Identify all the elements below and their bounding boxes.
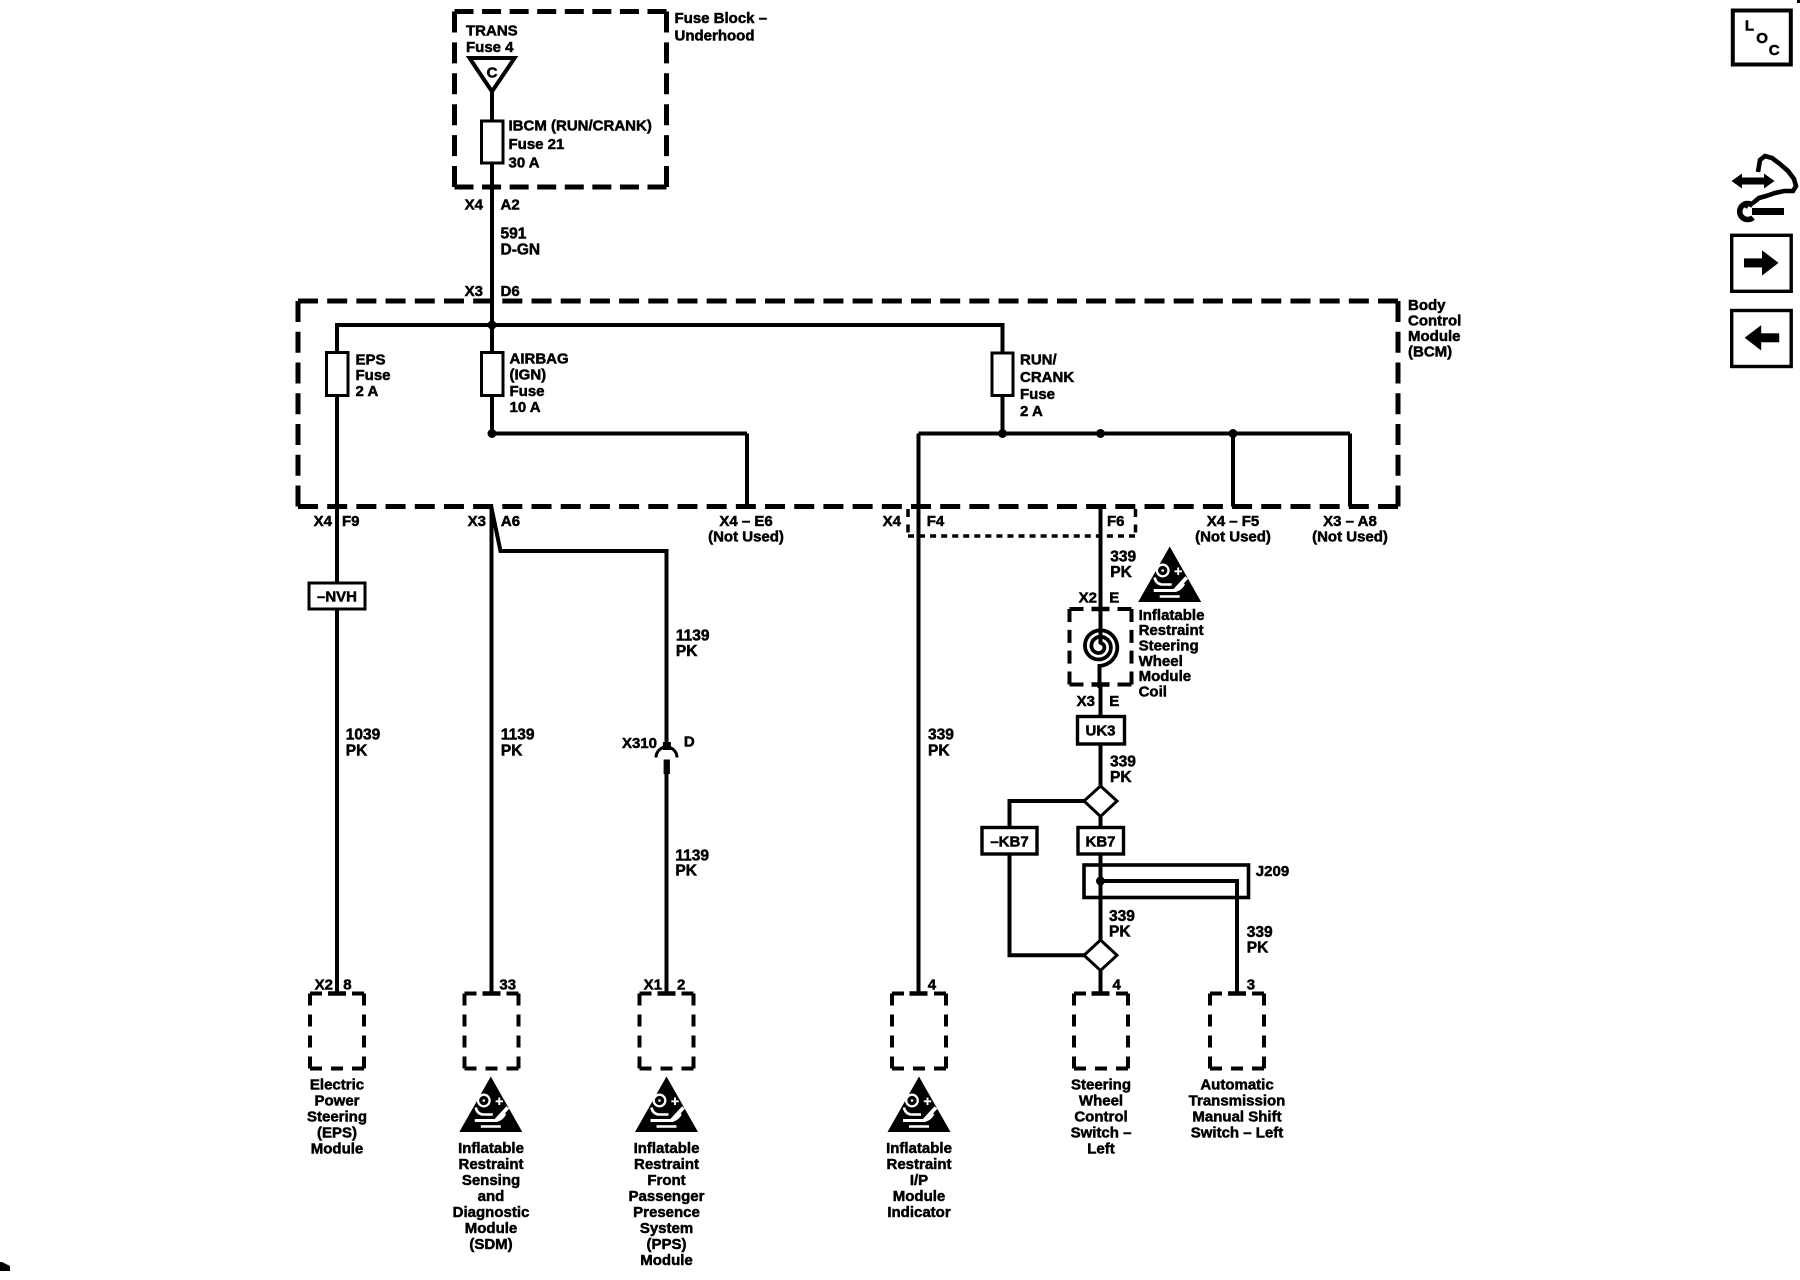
svg-text:Module: Module [1408, 328, 1461, 345]
wire: coil spiral exit [1098, 664, 1102, 688]
connector X4 dotted outline (pins F4, F6) [908, 509, 1136, 536]
svg-text:2: 2 [677, 977, 685, 994]
svg-text:and: and [478, 1188, 505, 1205]
connector C (TRANS Fuse 4 feed) [470, 58, 515, 92]
tick: wire entry at automatic transmission manual shift switch - left [1228, 991, 1246, 996]
airbag warning triangle (coil) [1138, 547, 1201, 603]
terminal dashed box: steering wheel control switch - left [1074, 994, 1128, 1069]
label: Body Control Module (BCM) [1408, 297, 1461, 361]
svg-text:X3: X3 [468, 513, 486, 530]
svg-text:Diagnostic: Diagnostic [453, 1204, 530, 1221]
page corner mark (bottom left) [0, 1262, 10, 1271]
svg-text:Passenger: Passenger [629, 1188, 705, 1205]
svg-text:Manual Shift: Manual Shift [1192, 1109, 1281, 1126]
svg-text:L: L [1745, 18, 1754, 35]
svg-text:PK: PK [501, 743, 523, 760]
tick: wire entry at electric power steering (EPS) module [328, 991, 346, 996]
splice pack J209 [1084, 865, 1249, 898]
svg-text:Switch –: Switch – [1071, 1125, 1132, 1142]
wire: lower bus to F4 [917, 434, 921, 507]
wire: F9 to EPS module (circuit 1039 PK) [335, 507, 339, 996]
svg-text:Control: Control [1074, 1109, 1127, 1126]
label: Fuse Block - Underhood [675, 10, 768, 44]
svg-text:Steering: Steering [1071, 1077, 1131, 1094]
tick: coil connector entry X2-E [1092, 607, 1110, 612]
svg-text:PK: PK [676, 643, 698, 660]
svg-text:PK: PK [346, 743, 368, 760]
svg-text:Fuse Block –: Fuse Block – [675, 10, 768, 27]
svg-text:Module: Module [311, 1141, 364, 1158]
option box UK3 [1078, 717, 1125, 745]
label: X4 - E6 (Not Used) [708, 513, 784, 546]
wire: RUN/CRANK fuse drop [1001, 325, 1005, 436]
svg-text:E: E [1109, 589, 1119, 606]
airbag warning triangle (I/P) [888, 1077, 951, 1133]
fuse IBCM (RUN/CRANK) Fuse 21 30A [482, 121, 504, 163]
option box KB7 [1078, 828, 1124, 855]
svg-text:D: D [684, 734, 695, 751]
svg-text:E: E [1109, 693, 1119, 710]
tick: wire entry at I/P module indicator [910, 991, 928, 996]
svg-text:Steering: Steering [307, 1109, 367, 1126]
svg-text:CRANK: CRANK [1020, 369, 1074, 386]
inline connector X310 pin D [622, 734, 695, 775]
svg-text:339: 339 [1110, 754, 1136, 771]
terminal dashed box: PPS module [640, 994, 694, 1069]
svg-text:(IGN): (IGN) [510, 367, 547, 384]
svg-text:Inflatable: Inflatable [634, 1140, 700, 1157]
svg-text:3: 3 [1247, 977, 1255, 994]
wire: KB7 through J209 to lower diamond [1099, 854, 1103, 940]
svg-text:(SDM): (SDM) [469, 1236, 512, 1253]
svg-text:Underhood: Underhood [675, 27, 755, 44]
wire: coil to UK3 [1099, 685, 1103, 718]
junction node: AIRBAG branch to X4-E6 [488, 429, 497, 438]
svg-text:Inflatable: Inflatable [886, 1140, 952, 1157]
wire: BCM top bus [335, 323, 1005, 327]
airbag warning triangle (SDM) [459, 1077, 522, 1133]
fuse AIRBAG (IGN) Fuse 10A [482, 353, 504, 396]
option box -KB7 [982, 828, 1037, 855]
wire label 339 PK (F4) [928, 727, 954, 760]
svg-text:F9: F9 [342, 513, 360, 530]
svg-text:1039: 1039 [346, 727, 381, 744]
svg-text:X2: X2 [1079, 589, 1097, 606]
svg-text:A6: A6 [501, 513, 520, 530]
label: Inflatable Restraint Steering Wheel Module Coil [1139, 607, 1205, 701]
wire: J209 to automatic transmission switch (339 PK) [1101, 881, 1238, 995]
wire: lower diamond to steering wheel control switch [1099, 971, 1103, 996]
navigation icon: next page (right arrow) [1732, 235, 1792, 291]
LOC reference box icon [1733, 11, 1791, 65]
svg-text:1139: 1139 [501, 727, 535, 744]
label: EPS Fuse 2 A [356, 351, 391, 400]
svg-text:KB7: KB7 [1085, 833, 1115, 850]
fuse block - underhood dashed box [455, 12, 667, 188]
svg-text:591: 591 [501, 225, 527, 242]
svg-text:Inflatable: Inflatable [458, 1140, 524, 1157]
svg-text:X4 – E6: X4 – E6 [719, 513, 772, 530]
svg-text:8: 8 [343, 977, 351, 994]
svg-text:Power: Power [314, 1093, 359, 1110]
navigation icon: previous page (left arrow) [1732, 311, 1792, 367]
svg-text:Restraint: Restraint [634, 1156, 699, 1173]
wire: F4 to I/P module indicator (circuit 339 PK) [917, 507, 921, 996]
svg-text:X4: X4 [314, 513, 333, 530]
tick: wire entry at steering wheel control switch - left [1092, 991, 1110, 996]
terminal dashed box: automatic transmission manual shift switch - left [1210, 994, 1264, 1069]
svg-text:(BCM): (BCM) [1408, 344, 1452, 361]
body control module (BCM) dashed box [298, 301, 1398, 507]
label: Electric Power Steering (EPS) Module [307, 1077, 367, 1158]
svg-text:Front: Front [647, 1172, 685, 1189]
svg-text:10 A: 10 A [510, 399, 541, 416]
svg-text:UK3: UK3 [1085, 723, 1115, 740]
wire label 339 PK (below J209) [1109, 908, 1135, 941]
splice diamond (lower) [1084, 940, 1117, 971]
label: AIRBAG (IGN) Fuse 10 A [510, 350, 569, 416]
page corner mark (top right) [1797, 0, 1800, 3]
svg-text:Module: Module [465, 1220, 518, 1237]
svg-text:IBCM (RUN/CRANK): IBCM (RUN/CRANK) [509, 117, 652, 134]
label: Automatic Transmission Manual Shift Switch - Left [1189, 1077, 1286, 1142]
label: RUN/CRANK Fuse 2 A [1020, 352, 1074, 420]
svg-text:Body: Body [1408, 297, 1446, 314]
splice diamond (upper) [1084, 786, 1117, 817]
wire label 339 PK (below UK3) [1110, 754, 1136, 787]
wire: connector C to BCM bus [490, 92, 494, 328]
wire: X310 to PPS module [665, 772, 669, 995]
svg-text:Restraint: Restraint [886, 1156, 951, 1173]
wire: branch to X4-E6 [492, 432, 747, 436]
svg-text:PK: PK [1110, 769, 1132, 786]
svg-text:X3: X3 [1077, 693, 1095, 710]
hotspot icon: vehicle outline with arrows and wrench [1732, 156, 1797, 220]
label: Inflatable Restraint Sensing and Diagnostic Module (SDM) [453, 1140, 530, 1253]
svg-text:X2: X2 [315, 977, 333, 994]
svg-text:X3 – A8: X3 – A8 [1323, 513, 1377, 530]
wire: X4-F5 drop (not used) [1231, 434, 1235, 507]
wire: X4-E6 drop (not used) [745, 434, 749, 507]
option box -NVH [309, 583, 365, 609]
svg-text:Sensing: Sensing [462, 1172, 520, 1189]
svg-text:PK: PK [1247, 939, 1269, 956]
svg-text:Left: Left [1087, 1141, 1115, 1158]
wire: BCM lower bus [919, 432, 1351, 436]
svg-text:X310: X310 [622, 735, 657, 752]
svg-text:C: C [487, 65, 498, 82]
svg-text:Module: Module [893, 1188, 946, 1205]
svg-text:AIRBAG: AIRBAG [510, 350, 569, 367]
svg-text:PK: PK [675, 863, 697, 880]
wire: UK3 to splice diamond (339 PK) [1099, 744, 1103, 788]
svg-text:Coil: Coil [1139, 683, 1167, 700]
wire: -KB7 to lower splice diamond [1010, 854, 1085, 955]
svg-text:RUN/: RUN/ [1020, 352, 1057, 369]
svg-text:Fuse: Fuse [510, 383, 545, 400]
terminal dashed box: I/P module indicator [892, 994, 946, 1069]
svg-text:Control: Control [1408, 313, 1461, 330]
svg-text:Restraint: Restraint [458, 1156, 523, 1173]
svg-text:X1: X1 [644, 977, 662, 994]
wire: diamond to KB7 [1099, 817, 1103, 867]
wire: EPS fuse branch (F9 drop inside BCM) [335, 327, 339, 507]
fuse RUN/CRANK Fuse 2A [992, 353, 1013, 396]
svg-text:(EPS): (EPS) [317, 1125, 357, 1142]
svg-text:PK: PK [1110, 564, 1132, 581]
svg-text:D-GN: D-GN [501, 242, 541, 259]
label: TRANS Fuse 4 [466, 23, 518, 57]
svg-text:Fuse 21: Fuse 21 [509, 136, 565, 153]
wire label 1139 PK (X310 lower) [675, 847, 709, 879]
svg-text:–NVH: –NVH [317, 589, 357, 606]
fuse EPS Fuse 2A [327, 353, 349, 396]
svg-text:PK: PK [1109, 924, 1131, 941]
svg-text:J209: J209 [1256, 863, 1289, 880]
svg-text:339: 339 [1110, 548, 1136, 565]
wire: F6 to steering wheel module coil (circuit 339 PK) [1099, 507, 1103, 645]
svg-text:339: 339 [928, 727, 954, 744]
svg-text:X4 – F5: X4 – F5 [1207, 513, 1260, 530]
svg-text:X3: X3 [465, 283, 483, 300]
terminal dashed box: SDM [465, 994, 519, 1069]
svg-text:339: 339 [1109, 908, 1135, 925]
svg-text:X4: X4 [883, 513, 902, 530]
wire: AIRBAG fuse branch [490, 325, 494, 436]
svg-text:TRANS: TRANS [466, 23, 518, 40]
junction node inside J209 [1096, 877, 1105, 886]
tick: wire entry at SDM [483, 991, 501, 996]
label: X3 - A8 (Not Used) [1312, 513, 1388, 546]
terminal dashed box: electric power steering (EPS) module [310, 994, 364, 1069]
label: X4 - F5 (Not Used) [1195, 513, 1271, 546]
junction node: RUN/CRANK to lower bus [998, 429, 1007, 438]
label: Inflatable Restraint I/P Module Indicator [886, 1140, 952, 1221]
svg-text:2 A: 2 A [356, 383, 379, 400]
wire: X3-A8 drop (not used) [1348, 434, 1352, 507]
svg-text:F4: F4 [927, 513, 945, 530]
svg-text:(PPS): (PPS) [646, 1236, 686, 1253]
junction node: D6 feed to top bus [488, 321, 497, 330]
svg-text:System: System [640, 1220, 693, 1237]
svg-text:339: 339 [1247, 924, 1273, 941]
label: IBCM (RUN/CRANK) Fuse 21 30 A [509, 117, 652, 171]
svg-text:Automatic: Automatic [1200, 1077, 1273, 1094]
junction node: lower bus to F6 [1096, 429, 1105, 438]
svg-text:4: 4 [1113, 977, 1122, 994]
svg-text:Fuse: Fuse [356, 367, 391, 384]
svg-text:Switch – Left: Switch – Left [1191, 1125, 1284, 1142]
label: Steering Wheel Control Switch - Left [1071, 1077, 1132, 1158]
junction node: lower bus to X4-F5 [1229, 429, 1238, 438]
svg-text:30 A: 30 A [509, 154, 540, 171]
svg-text:Module: Module [640, 1252, 693, 1269]
tick: wire entry at PPS module [658, 991, 676, 996]
svg-text:F6: F6 [1107, 513, 1125, 530]
svg-text:PK: PK [928, 743, 950, 760]
airbag warning triangle (PPS) [635, 1077, 698, 1133]
svg-text:D6: D6 [501, 283, 520, 300]
svg-text:33: 33 [499, 977, 516, 994]
svg-text:Fuse 4: Fuse 4 [466, 39, 514, 56]
wire label 339 PK (F6) [1110, 548, 1136, 581]
svg-text:EPS: EPS [356, 351, 386, 368]
svg-text:C: C [1769, 42, 1780, 59]
wire label 1039 PK [346, 727, 381, 760]
wire label 591 D-GN [501, 225, 541, 258]
svg-text:2 A: 2 A [1020, 403, 1043, 420]
svg-text:Fuse: Fuse [1020, 386, 1055, 403]
coil (clockspring) spiral symbol [1085, 630, 1117, 666]
tick: coil connector exit X3-E [1092, 682, 1110, 687]
inflatable restraint steering wheel module coil dashed box [1070, 609, 1132, 685]
svg-text:Wheel: Wheel [1079, 1093, 1123, 1110]
svg-text:A2: A2 [501, 196, 520, 213]
wire label 1139 PK (SDM) [501, 727, 535, 760]
svg-text:(Not Used): (Not Used) [1195, 528, 1271, 545]
svg-text:Indicator: Indicator [887, 1204, 951, 1221]
svg-text:(Not Used): (Not Used) [1312, 528, 1388, 545]
wire: A6 branch to X310 (circuit 1139 PK) [492, 508, 667, 750]
svg-text:4: 4 [928, 977, 937, 994]
label: Inflatable Restraint Front Passenger Presence System (PPS) Module [629, 1140, 705, 1269]
wire: A6 to SDM (circuit 1139 PK) [490, 507, 494, 996]
wire label 339 PK (right branch) [1247, 924, 1273, 957]
svg-text:Transmission: Transmission [1189, 1093, 1286, 1110]
svg-text:(Not Used): (Not Used) [708, 528, 784, 545]
wire: diamond to -KB7 [1010, 801, 1085, 828]
wire label 1139 PK (X310 upper) [676, 628, 710, 660]
svg-text:O: O [1756, 30, 1768, 47]
svg-text:I/P: I/P [910, 1172, 928, 1189]
svg-text:X4: X4 [465, 196, 484, 213]
svg-text:Electric: Electric [310, 1077, 364, 1094]
svg-text:–KB7: –KB7 [990, 833, 1028, 850]
svg-text:Presence: Presence [633, 1204, 700, 1221]
